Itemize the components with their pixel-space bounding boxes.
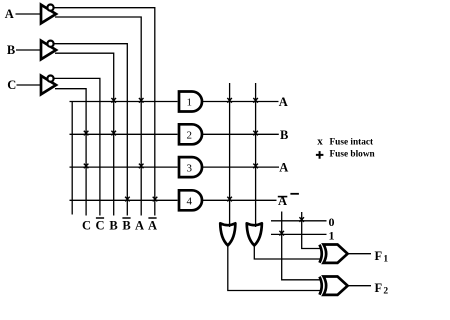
svg-text:Fuse intact: Fuse intact bbox=[330, 138, 375, 148]
svg-text:1: 1 bbox=[187, 97, 193, 109]
svg-text:2: 2 bbox=[187, 130, 193, 142]
svg-text:1: 1 bbox=[329, 229, 335, 243]
svg-text:0: 0 bbox=[329, 215, 335, 229]
svg-text:F: F bbox=[375, 249, 383, 263]
svg-text:A: A bbox=[279, 161, 288, 175]
svg-text:B: B bbox=[109, 219, 117, 233]
svg-text:2: 2 bbox=[383, 286, 388, 296]
svg-text:A: A bbox=[5, 7, 14, 21]
svg-text:C: C bbox=[95, 219, 104, 233]
svg-text:B: B bbox=[7, 43, 15, 57]
svg-text:1: 1 bbox=[383, 254, 388, 264]
svg-text:A: A bbox=[148, 219, 157, 233]
svg-text:C: C bbox=[7, 78, 16, 92]
svg-text:C: C bbox=[82, 219, 91, 233]
svg-text:F: F bbox=[375, 281, 383, 295]
svg-text:A: A bbox=[279, 95, 288, 109]
svg-text:A: A bbox=[135, 219, 144, 233]
svg-text:3: 3 bbox=[187, 162, 193, 174]
svg-text:Fuse blown: Fuse blown bbox=[330, 150, 376, 160]
svg-text:B: B bbox=[280, 128, 288, 142]
svg-text:x: x bbox=[317, 135, 323, 147]
svg-text:B: B bbox=[122, 219, 130, 233]
svg-text:4: 4 bbox=[187, 196, 193, 208]
